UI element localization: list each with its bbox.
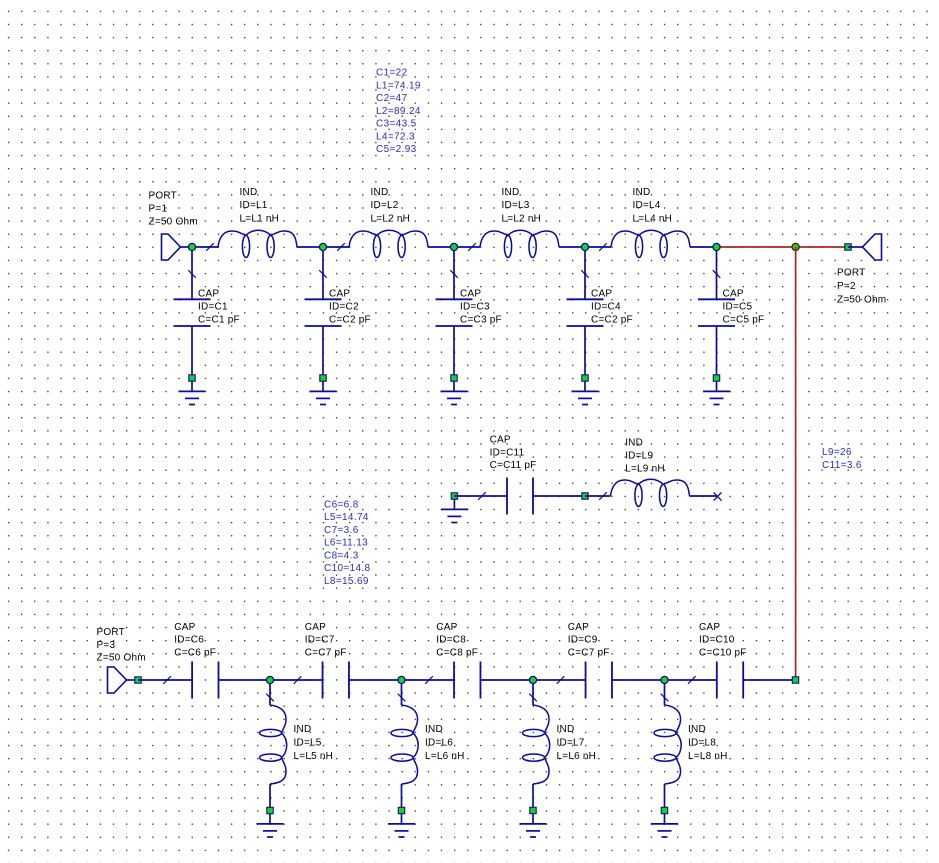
svg-text:C=C6 pF: C=C6 pF xyxy=(174,647,216,658)
node T1 xyxy=(188,243,195,250)
wire capacitor C7 to node xyxy=(349,679,402,681)
wire node down to capacitor C2 xyxy=(322,247,324,299)
svg-text:L=L6 nH: L=L6 nH xyxy=(557,751,597,762)
pin 1 tick of inductor L3 xyxy=(468,243,476,251)
svg-text:PORT: PORT xyxy=(837,268,865,279)
wire to capacitor C7 xyxy=(270,679,323,681)
svg-text:ID=C4: ID=C4 xyxy=(591,301,621,312)
svg-text:L6=11.13: L6=11.13 xyxy=(324,538,368,549)
wire inductor L6 to ground terminal xyxy=(401,784,403,808)
svg-text:CAP: CAP xyxy=(174,622,195,633)
svg-text:C=C3 pF: C=C3 pF xyxy=(460,314,502,325)
pin tick of capacitor C3 xyxy=(450,270,458,278)
svg-text:ID=C1: ID=C1 xyxy=(198,301,228,312)
capacitor C4 label CAP ID=C4 xyxy=(591,288,633,325)
equation text block C1..C5 values xyxy=(376,68,421,156)
capacitor C1 xyxy=(174,299,211,326)
inductor L7 label IND ID=L7 xyxy=(557,724,597,762)
svg-text:PORT: PORT xyxy=(97,627,125,638)
wire node to inductor L1 xyxy=(192,246,218,248)
svg-text:IND: IND xyxy=(371,187,389,198)
capacitor C3 xyxy=(436,299,473,326)
svg-text:CAP: CAP xyxy=(436,622,457,633)
wire capacitor C5 to ground terminal xyxy=(716,326,718,375)
svg-text:CAP: CAP xyxy=(198,288,219,299)
svg-text:C=C11 pF: C=C11 pF xyxy=(490,460,537,471)
wire capacitor C9 to node xyxy=(612,679,665,681)
terminal port P3 xyxy=(135,677,141,683)
wire to capacitor C6 xyxy=(138,679,192,681)
inductor L3 label IND ID=L3 xyxy=(502,187,542,225)
capacitor C8 label CAP ID=C8 xyxy=(436,622,478,659)
port P1 symbol xyxy=(162,234,193,260)
svg-text:C=C8 pF: C=C8 pF xyxy=(436,647,478,658)
pin tick of capacitor C1 xyxy=(188,270,196,278)
svg-text:C6=6.8: C6=6.8 xyxy=(324,499,359,510)
terminal of inductor L6 xyxy=(398,807,404,813)
svg-text:IND: IND xyxy=(294,724,312,735)
svg-text:P=1: P=1 xyxy=(149,203,168,214)
wire node down to inductor L7 xyxy=(532,680,534,705)
svg-text:ID=C11: ID=C11 xyxy=(490,447,525,458)
svg-text:C5=2.93: C5=2.93 xyxy=(376,144,417,155)
ground xyxy=(257,814,284,838)
pin tick of inductor L6 xyxy=(398,694,406,702)
capacitor C2 xyxy=(305,299,342,326)
wire terminal to inductor L9 xyxy=(585,495,611,497)
node red net junction xyxy=(792,243,799,250)
svg-text:IND: IND xyxy=(633,187,651,198)
equation text block C6..L8 values xyxy=(324,499,371,587)
node T5 xyxy=(713,243,720,250)
node T4 xyxy=(581,243,588,250)
svg-text:C=C1 pF: C=C1 pF xyxy=(198,314,240,325)
wire inductor L5 to ground terminal xyxy=(269,784,271,808)
capacitor C11 label CAP ID=C11 xyxy=(490,434,537,471)
capacitor C6 xyxy=(192,662,218,699)
ground xyxy=(179,381,206,405)
inductor L5 xyxy=(260,705,287,784)
pin tick of capacitor C4 xyxy=(581,270,589,278)
svg-text:ID=C3: ID=C3 xyxy=(460,301,490,312)
capacitor C10 xyxy=(717,662,743,699)
svg-text:CAP: CAP xyxy=(699,622,720,633)
svg-text:ID=C5: ID=C5 xyxy=(723,301,753,312)
svg-text:IND: IND xyxy=(688,724,706,735)
svg-text:ID=C2: ID=C2 xyxy=(329,301,359,312)
wire to capacitor C9 xyxy=(533,679,586,681)
svg-text:CAP: CAP xyxy=(568,622,589,633)
inductor L3 xyxy=(480,230,559,257)
pin tick of inductor L8 xyxy=(661,694,669,702)
terminal of capacitor C2 xyxy=(320,375,326,381)
svg-text:CAP: CAP xyxy=(490,434,511,445)
svg-text:Z=50 Ohm: Z=50 Ohm xyxy=(149,216,198,227)
svg-text:ID=C8: ID=C8 xyxy=(436,635,466,646)
inductor L1 xyxy=(218,230,297,257)
svg-text:Z=50 Ohm: Z=50 Ohm xyxy=(837,294,886,305)
pin tick of inductor L5 xyxy=(266,694,274,702)
capacitor C3 label CAP ID=C3 xyxy=(460,288,502,325)
terminal of inductor L5 xyxy=(267,807,273,813)
wire node down to capacitor C3 xyxy=(453,247,455,299)
wire inductor L1 to node xyxy=(297,246,323,248)
svg-text:ID=L4: ID=L4 xyxy=(633,200,661,211)
wire capacitor C3 to ground terminal xyxy=(453,326,455,375)
inductor L6 label IND ID=L6 xyxy=(425,724,465,762)
svg-text:C=C10 pF: C=C10 pF xyxy=(699,647,747,658)
svg-text:IND: IND xyxy=(625,438,643,449)
svg-text:L=L2 nH: L=L2 nH xyxy=(371,214,411,225)
pin 1 tick of inductor L2 xyxy=(337,243,345,251)
capacitor C9 xyxy=(586,662,612,699)
svg-text:ID=C6: ID=C6 xyxy=(174,635,204,646)
terminal red net bottom end xyxy=(792,677,798,683)
wire terminal to capacitor C11 xyxy=(454,495,507,497)
capacitor C7 xyxy=(323,662,349,699)
node B4 xyxy=(661,676,668,683)
port P3 label PORT P=3 Z=50 Ohm xyxy=(97,627,146,664)
inductor L4 xyxy=(611,230,690,257)
port P1 label PORT P=1 Z=50 Ohm xyxy=(149,190,198,227)
node B2 xyxy=(398,676,405,683)
capacitor C4 xyxy=(567,299,604,326)
svg-text:L1=74.19: L1=74.19 xyxy=(376,80,421,91)
svg-text:L=L8 nH: L=L8 nH xyxy=(688,751,728,762)
svg-text:L=L5 nH: L=L5 nH xyxy=(294,751,334,762)
open end X marker xyxy=(714,492,722,500)
capacitor C6 label CAP ID=C6 xyxy=(174,622,216,659)
svg-text:C7=3.6: C7=3.6 xyxy=(324,525,359,536)
inductor L1 label IND ID=L1 xyxy=(240,187,280,225)
inductor L4 label IND ID=L4 xyxy=(633,187,673,225)
svg-text:L4=72.3: L4=72.3 xyxy=(376,131,415,142)
svg-text:L=L4 nH: L=L4 nH xyxy=(633,214,673,225)
svg-text:ID=C9: ID=C9 xyxy=(568,635,598,646)
terminal of inductor L7 xyxy=(530,807,536,813)
wire capacitor C1 to ground terminal xyxy=(191,326,193,375)
port P2 symbol xyxy=(863,234,882,260)
pin 1 tick of inductor L1 xyxy=(206,243,214,251)
svg-text:L=L6 nH: L=L6 nH xyxy=(425,751,465,762)
capacitor C9 label CAP ID=C9 xyxy=(568,622,610,659)
ground xyxy=(441,499,468,523)
pin tick of capacitor C5 xyxy=(713,270,721,278)
inductor L2 label IND ID=L2 xyxy=(371,187,411,225)
node B3 xyxy=(529,676,536,683)
svg-text:ID=L9: ID=L9 xyxy=(625,451,653,462)
ground xyxy=(520,814,547,838)
terminal of capacitor C1 xyxy=(189,375,195,381)
wire node down to capacitor C1 xyxy=(191,247,193,299)
ground xyxy=(310,381,337,405)
wire to capacitor C10 xyxy=(665,679,717,681)
wire capacitor C8 to node xyxy=(480,679,533,681)
inductor L8 xyxy=(654,705,681,784)
svg-text:ID=L3: ID=L3 xyxy=(502,200,530,211)
pin tick of capacitor C11 xyxy=(478,492,486,500)
capacitor C5 xyxy=(698,299,735,326)
wire node down to inductor L8 xyxy=(664,680,666,705)
pin tick of capacitor C6 xyxy=(163,676,171,684)
svg-text:IND: IND xyxy=(557,724,575,735)
ground xyxy=(703,381,730,405)
capacitor C1 label CAP ID=C1 xyxy=(198,288,240,325)
svg-text:L2=89.24: L2=89.24 xyxy=(376,106,421,117)
svg-text:PORT: PORT xyxy=(149,190,177,201)
terminal middle branch ground side xyxy=(451,493,457,499)
ground xyxy=(572,381,599,405)
svg-text:CAP: CAP xyxy=(591,288,612,299)
svg-text:ID=L1: ID=L1 xyxy=(240,200,268,211)
node T3 xyxy=(450,243,457,250)
svg-text:Z=50 Ohm: Z=50 Ohm xyxy=(97,653,146,664)
pin tick of capacitor C9 xyxy=(557,676,565,684)
capacitor C7 label CAP ID=C7 xyxy=(305,622,347,659)
wire port P2 terminal to symbol xyxy=(848,246,863,248)
inductor L9 xyxy=(611,479,690,506)
svg-text:C3=43.5: C3=43.5 xyxy=(376,119,417,130)
wire inductor L2 to node xyxy=(428,246,454,248)
svg-text:L=L9 nH: L=L9 nH xyxy=(625,463,665,474)
wire node to inductor L2 xyxy=(323,246,349,248)
svg-text:CAP: CAP xyxy=(329,288,350,299)
wire inductor L8 to ground terminal xyxy=(664,784,666,808)
svg-text:ID=L5: ID=L5 xyxy=(294,737,322,748)
svg-text:L=L1 nH: L=L1 nH xyxy=(240,214,280,225)
wire capacitor C4 to ground terminal xyxy=(584,326,586,375)
svg-text:ID=L8: ID=L8 xyxy=(688,737,716,748)
wire capacitor C11 to terminal xyxy=(533,495,585,497)
wire capacitor C2 to ground terminal xyxy=(322,326,324,375)
inductor L2 xyxy=(349,230,428,257)
svg-text:CAP: CAP xyxy=(460,288,481,299)
inductor L9 label IND ID=L9 xyxy=(625,438,665,475)
svg-text:CAP: CAP xyxy=(723,288,744,299)
svg-text:ID=L7: ID=L7 xyxy=(557,737,585,748)
svg-text:C=C7 pF: C=C7 pF xyxy=(305,647,347,658)
svg-text:C=C7 pF: C=C7 pF xyxy=(568,647,610,658)
port P2 label PORT P=2 Z=50 Ohm xyxy=(837,268,886,306)
wire to capacitor C8 xyxy=(402,679,455,681)
capacitor C5 label CAP ID=C5 xyxy=(723,288,765,325)
ground xyxy=(651,814,678,838)
svg-text:ID=C7: ID=C7 xyxy=(305,635,335,646)
wire node down to capacitor C4 xyxy=(584,247,586,299)
wire inductor L7 to ground terminal xyxy=(532,784,534,808)
wire inductor L9 to open end xyxy=(690,495,718,497)
wire capacitor C10 to node xyxy=(743,679,795,681)
wire node down to inductor L5 xyxy=(269,680,271,705)
capacitor C10 label CAP ID=C10 xyxy=(699,622,747,659)
svg-text:ID=L6: ID=L6 xyxy=(425,737,453,748)
svg-text:IND: IND xyxy=(240,187,258,198)
capacitor C2 label CAP ID=C2 xyxy=(329,288,371,325)
terminal port P2 xyxy=(845,244,851,250)
equation text block L9 C11 values xyxy=(822,447,862,471)
svg-text:C2=47: C2=47 xyxy=(376,93,408,104)
svg-text:ID=L2: ID=L2 xyxy=(371,200,399,211)
ground xyxy=(388,814,415,838)
svg-text:C=C2 pF: C=C2 pF xyxy=(591,314,633,325)
node T2 xyxy=(319,243,326,250)
terminal of capacitor C4 xyxy=(582,375,588,381)
pin tick of inductor L9 xyxy=(599,492,607,500)
terminal of capacitor C5 xyxy=(713,375,719,381)
capacitor C11 xyxy=(507,478,533,515)
svg-text:IND: IND xyxy=(425,724,443,735)
wire inductor L3 to node xyxy=(559,246,585,248)
svg-text:L5=14.74: L5=14.74 xyxy=(324,512,369,523)
svg-text:ID=C10: ID=C10 xyxy=(699,635,735,646)
svg-text:C1=22: C1=22 xyxy=(376,68,408,79)
pin 1 tick of inductor L4 xyxy=(599,243,607,251)
wire node to inductor L4 xyxy=(585,246,611,248)
wire red net top horizontal xyxy=(717,246,849,248)
pin tick of capacitor C8 xyxy=(425,676,433,684)
svg-text:L=L2 nH: L=L2 nH xyxy=(502,214,542,225)
inductor L8 label IND ID=L8 xyxy=(688,724,728,762)
svg-text:C8=4.3: C8=4.3 xyxy=(324,550,359,561)
inductor L7 xyxy=(523,705,550,784)
pin tick of capacitor C10 xyxy=(688,676,696,684)
svg-text:IND: IND xyxy=(502,187,520,198)
wire node down to inductor L6 xyxy=(401,680,403,705)
terminal of inductor L8 xyxy=(661,807,667,813)
svg-text:P=3: P=3 xyxy=(97,640,116,651)
wire node down to capacitor C5 xyxy=(716,247,718,299)
terminal between C11 and L9 xyxy=(582,493,588,499)
svg-text:P=2: P=2 xyxy=(837,281,856,292)
inductor L6 xyxy=(391,705,418,784)
svg-text:L8=15.69: L8=15.69 xyxy=(324,576,369,587)
svg-text:C11=3.6: C11=3.6 xyxy=(822,460,862,471)
capacitor C8 xyxy=(454,662,480,699)
ground xyxy=(441,381,468,405)
port P3 symbol xyxy=(108,667,139,693)
svg-text:L9=26: L9=26 xyxy=(822,447,852,458)
wire node to inductor L3 xyxy=(454,246,480,248)
node B1 xyxy=(266,676,273,683)
pin tick of inductor L7 xyxy=(529,694,537,702)
wire inductor L4 to node xyxy=(690,246,717,248)
svg-text:C=C5 pF: C=C5 pF xyxy=(723,314,765,325)
pin tick of capacitor C7 xyxy=(294,676,302,684)
wire capacitor C6 to node xyxy=(219,679,271,681)
svg-text:CAP: CAP xyxy=(305,622,326,633)
pin tick of capacitor C2 xyxy=(319,270,327,278)
wire red net vertical xyxy=(795,247,797,677)
inductor L5 label IND ID=L5 xyxy=(294,724,334,762)
svg-text:C10=14.8: C10=14.8 xyxy=(324,563,371,574)
terminal of capacitor C3 xyxy=(451,375,457,381)
svg-text:C=C2 pF: C=C2 pF xyxy=(329,314,371,325)
